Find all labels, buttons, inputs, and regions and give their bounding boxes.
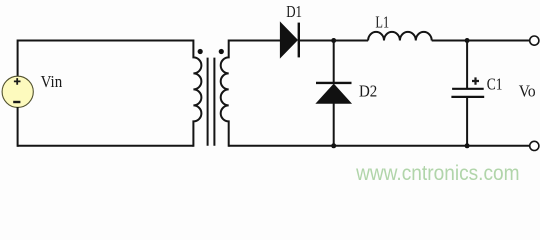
- output terminal top: [530, 36, 539, 45]
- watermark www.cntronics.com: [355, 161, 519, 185]
- wire C1 lower: [466, 97, 468, 146]
- label Vin: [41, 72, 63, 91]
- junction node A: [331, 38, 336, 43]
- wire secondary bottom: [229, 145, 530, 147]
- wire primary bottom: [18, 145, 194, 147]
- wire primary left lower: [17, 107, 19, 147]
- wire D2 upper: [333, 41, 335, 83]
- label C1: [487, 75, 503, 94]
- capacitor C1: [451, 89, 484, 97]
- wire D1 to node A: [299, 40, 334, 42]
- transformer secondary winding: [221, 40, 229, 147]
- diode D2: [316, 83, 352, 103]
- wire secondary top to D1: [229, 40, 281, 42]
- label Vo: [519, 82, 536, 101]
- junction node D2 bottom: [331, 143, 336, 148]
- svg-text:Vin: Vin: [41, 72, 63, 91]
- diode D1: [280, 23, 298, 58]
- junction node B: [465, 38, 470, 43]
- wire node A to L1: [334, 40, 368, 42]
- label L1: [375, 13, 389, 32]
- svg-text:D2: D2: [359, 81, 377, 100]
- svg-text:Vo: Vo: [519, 82, 536, 101]
- transformer core: [208, 58, 215, 146]
- wire node B to top terminal: [467, 40, 530, 42]
- inductor L1: [368, 32, 432, 41]
- wire primary top: [18, 40, 194, 42]
- wire primary left upper: [17, 40, 19, 77]
- svg-text:www.cntronics.com: www.cntronics.com: [355, 161, 519, 185]
- label D2: [359, 81, 377, 100]
- svg-text:C1: C1: [487, 75, 503, 94]
- output terminal bottom: [530, 141, 539, 150]
- transformer primary winding: [193, 40, 201, 147]
- svg-text:D1: D1: [286, 2, 302, 21]
- label D1: [286, 2, 302, 21]
- polarity dot secondary: [219, 49, 224, 54]
- polarity dot primary: [198, 49, 203, 54]
- voltage source Vin: [2, 76, 33, 107]
- wire L1 to node B: [432, 40, 467, 42]
- junction node C1 bottom: [465, 143, 470, 148]
- plus sign C1: [472, 77, 479, 84]
- svg-text:L1: L1: [375, 13, 389, 32]
- wire D2 lower: [333, 103, 335, 146]
- wire C1 upper: [466, 41, 468, 89]
